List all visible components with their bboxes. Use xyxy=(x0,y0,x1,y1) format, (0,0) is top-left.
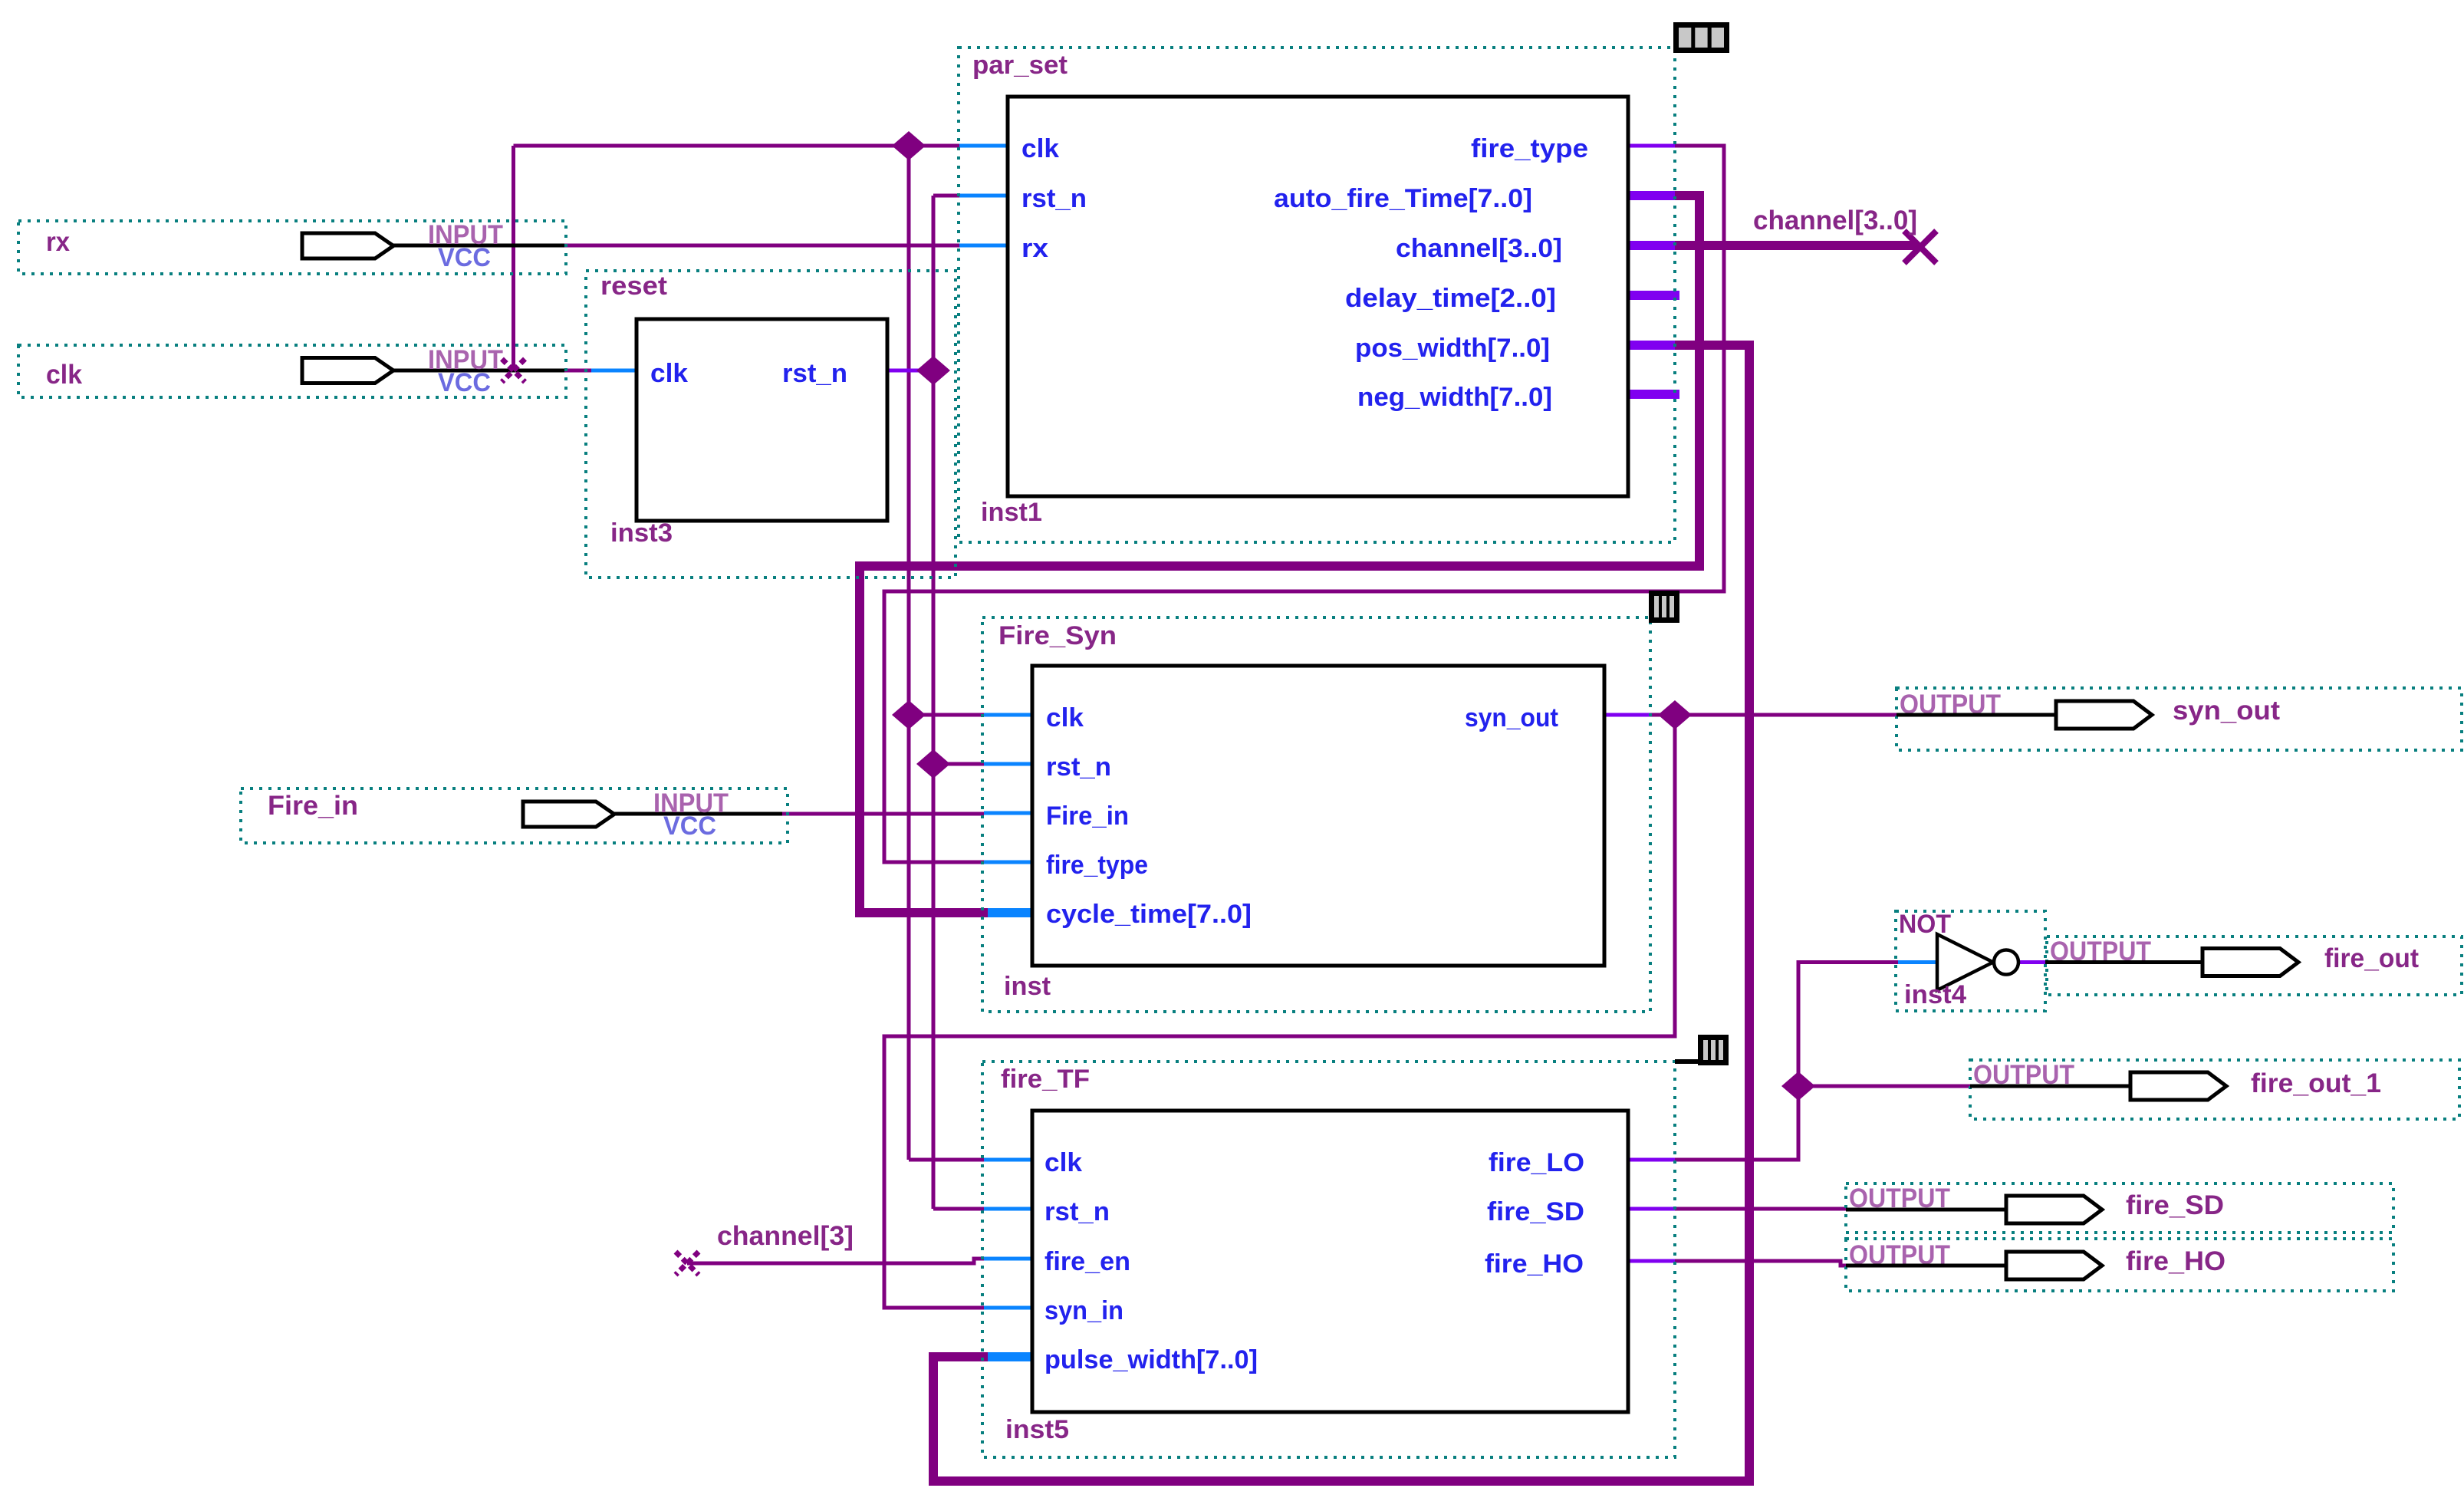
wire rx purple xyxy=(564,244,959,248)
bus pos_width to pulse_width xyxy=(933,345,1749,1481)
wire fire_HO net xyxy=(1675,1261,1848,1266)
Fire_Syn dotted frame xyxy=(982,617,1650,1012)
stub reset rst_n xyxy=(887,369,924,373)
svg-text:rst_n: rst_n xyxy=(1021,184,1087,213)
wire fire_SD net xyxy=(1675,1207,1846,1211)
port fire_SD black wire xyxy=(1846,1208,2008,1212)
wire clk input purple xyxy=(564,369,592,373)
svg-text:rst_n: rst_n xyxy=(1046,752,1111,782)
stub fire_TF fire_SD xyxy=(1628,1207,1675,1211)
wire clk input black xyxy=(393,369,566,373)
wire rst_n branch Fire_Syn xyxy=(933,762,984,766)
port Fire_in pin shape xyxy=(523,802,614,827)
stub Fire_Syn Fire_in xyxy=(984,811,1032,815)
port fire_SD pin shape xyxy=(2006,1196,2102,1223)
bus channel out xyxy=(1675,241,1917,250)
par_set body xyxy=(1008,97,1628,496)
svg-text:clk: clk xyxy=(650,359,688,388)
wire clk trunk xyxy=(907,146,911,1160)
svg-text:fire_SD: fire_SD xyxy=(1487,1197,1584,1226)
svg-text:rst_n: rst_n xyxy=(1044,1197,1110,1226)
stub fire_TF fire_en xyxy=(984,1257,1032,1261)
wire rst_n branch fire_TF xyxy=(933,1207,984,1211)
stub par_set fire_type xyxy=(1628,144,1675,148)
junction rst_n Fire_Syn xyxy=(916,749,950,779)
port fire_out dotted frame xyxy=(2047,937,2462,995)
stub par_set rx xyxy=(959,244,1008,248)
port fire_HO dotted frame xyxy=(1846,1239,2393,1291)
svg-text:channel[3]: channel[3] xyxy=(717,1221,854,1251)
port clk pin shape xyxy=(302,358,393,384)
wire channel3 to fire_en xyxy=(687,1259,984,1263)
svg-text:fire_out_1: fire_out_1 xyxy=(2251,1068,2381,1098)
svg-text:delay_time[2..0]: delay_time[2..0] xyxy=(1345,284,1556,313)
stub Fire_Syn clk xyxy=(984,713,1032,717)
junction clk Fire_Syn xyxy=(892,700,926,729)
svg-text:fire_TF: fire_TF xyxy=(1001,1065,1090,1094)
NOT triangle xyxy=(1937,934,1993,990)
port syn_out dotted frame xyxy=(1897,688,2462,750)
stub fire_TF clk xyxy=(984,1158,1032,1162)
wire rx black xyxy=(393,244,566,248)
page connector stub fire_TF xyxy=(1675,1059,1698,1064)
svg-text:rx: rx xyxy=(46,227,70,257)
wire Fire_in black xyxy=(614,812,784,816)
svg-text:fire_out: fire_out xyxy=(2324,943,2419,973)
wire syn_out branch to syn_in xyxy=(884,715,1675,1308)
page connector icon par_set xyxy=(1673,22,1729,53)
svg-text:cycle_time[7..0]: cycle_time[7..0] xyxy=(1046,900,1252,929)
Fire_Syn body xyxy=(1032,666,1604,966)
X marker clk input xyxy=(502,359,525,382)
junction syn_out xyxy=(1658,700,1692,729)
svg-text:channel[3..0]: channel[3..0] xyxy=(1753,206,1917,235)
stub Fire_Syn cycle_time xyxy=(988,908,1032,917)
reset body xyxy=(637,319,887,521)
port fire_out_1 black wire xyxy=(1970,1085,2131,1088)
fire_TF dotted frame xyxy=(982,1062,1675,1457)
port fire_out black wire xyxy=(2045,960,2205,964)
svg-text:fire_type: fire_type xyxy=(1471,134,1588,163)
wire rst_n branch par_set xyxy=(933,194,959,198)
stub par_set rst_n xyxy=(959,194,1008,198)
svg-text:fire_type: fire_type xyxy=(1046,851,1148,880)
port Fire_in dotted frame xyxy=(241,788,788,843)
stub fire_TF fire_HO xyxy=(1628,1259,1675,1263)
fire_TF body xyxy=(1032,1111,1628,1412)
svg-text:fire_en: fire_en xyxy=(1044,1247,1130,1276)
wire rst_n to trunk xyxy=(923,369,933,373)
svg-text:VCC: VCC xyxy=(663,811,716,841)
NOT output stub xyxy=(2018,960,2045,964)
wire fire_out_1 branch xyxy=(1798,1085,1970,1088)
svg-text:Fire_Syn: Fire_Syn xyxy=(998,621,1117,650)
wire clk top run xyxy=(514,144,960,148)
stub fire_TF fire_LO xyxy=(1628,1158,1675,1162)
stub par_set neg_width xyxy=(1628,390,1679,399)
svg-text:syn_out: syn_out xyxy=(2173,696,2280,726)
svg-text:syn_out: syn_out xyxy=(1465,703,1558,732)
svg-text:clk: clk xyxy=(1044,1148,1082,1177)
port syn_out black wire xyxy=(1897,713,2056,717)
svg-text:pos_width[7..0]: pos_width[7..0] xyxy=(1355,334,1550,363)
wire clk branch Fire_Syn xyxy=(909,713,984,717)
junction fire_LO xyxy=(1781,1072,1815,1101)
svg-text:inst3: inst3 xyxy=(610,518,673,548)
NOT bubble xyxy=(1994,950,2018,975)
svg-text:rst_n: rst_n xyxy=(782,359,847,388)
wire syn_out net xyxy=(1650,713,1897,717)
svg-text:reset: reset xyxy=(600,272,667,301)
par_set dotted frame xyxy=(959,48,1675,542)
wire fire_type net xyxy=(884,146,1724,862)
port rx dotted frame xyxy=(18,221,566,274)
port fire_out_1 dotted frame xyxy=(1970,1060,2459,1119)
svg-text:VCC: VCC xyxy=(438,368,491,397)
svg-text:pulse_width[7..0]: pulse_width[7..0] xyxy=(1044,1345,1258,1374)
svg-text:fire_SD: fire_SD xyxy=(2126,1190,2224,1220)
stub Fire_Syn syn_out xyxy=(1604,713,1650,717)
junction clk par_set xyxy=(892,131,926,160)
port fire_HO pin shape xyxy=(2006,1252,2102,1279)
svg-text:clk: clk xyxy=(1046,703,1084,732)
page connector icon fire_TF xyxy=(1698,1035,1729,1065)
port fire_HO black wire xyxy=(1846,1264,2008,1268)
wire clk branch fire_TF xyxy=(909,1158,984,1162)
stub fire_TF syn_in xyxy=(984,1306,1032,1310)
svg-text:syn_in: syn_in xyxy=(1044,1296,1123,1325)
svg-text:Fire_in: Fire_in xyxy=(1046,802,1129,831)
svg-text:clk: clk xyxy=(46,360,83,390)
svg-text:fire_HO: fire_HO xyxy=(2126,1246,2225,1276)
stub fire_TF pulse_width xyxy=(988,1352,1032,1361)
wire fire_LO net xyxy=(1675,963,1898,1160)
svg-text:VCC: VCC xyxy=(438,243,491,272)
svg-text:channel[3..0]: channel[3..0] xyxy=(1396,234,1562,263)
port rx pin shape xyxy=(302,233,393,258)
svg-text:inst: inst xyxy=(1004,972,1051,1001)
port clk dotted frame xyxy=(18,345,566,397)
page connector icon Fire_Syn xyxy=(1649,591,1679,623)
port fire_out pin shape xyxy=(2202,949,2298,976)
svg-text:fire_LO: fire_LO xyxy=(1489,1148,1584,1177)
stub par_set auto_fire_Time xyxy=(1628,191,1675,200)
NOT input stub xyxy=(1898,960,1937,964)
svg-text:auto_fire_Time[7..0]: auto_fire_Time[7..0] xyxy=(1274,184,1532,213)
svg-text:clk: clk xyxy=(1021,134,1059,163)
stub par_set clk xyxy=(959,144,1008,148)
X marker channel3 xyxy=(676,1252,699,1275)
stub par_set pos_width xyxy=(1628,341,1675,350)
reset dotted frame xyxy=(586,271,956,578)
stub reset clk xyxy=(591,369,637,373)
port fire_out_1 pin shape xyxy=(2130,1072,2226,1100)
svg-text:inst4: inst4 xyxy=(1904,980,1966,1009)
port syn_out pin shape xyxy=(2056,701,2152,729)
NOT dotted frame xyxy=(1896,911,2045,1011)
svg-text:neg_width[7..0]: neg_width[7..0] xyxy=(1357,383,1552,412)
stub par_set channel xyxy=(1628,241,1675,250)
stub Fire_Syn rst_n xyxy=(984,762,1032,766)
stub par_set delay_time xyxy=(1628,291,1679,300)
svg-text:inst1: inst1 xyxy=(981,498,1042,527)
svg-text:NOT: NOT xyxy=(1899,910,1951,939)
port fire_SD dotted frame xyxy=(1846,1183,2393,1233)
svg-text:fire_HO: fire_HO xyxy=(1485,1249,1584,1279)
svg-text:par_set: par_set xyxy=(972,51,1068,80)
X marker channel bus xyxy=(1904,231,1936,263)
wire clk riser xyxy=(512,146,515,370)
wire rst_n trunk xyxy=(932,196,936,1209)
stub Fire_Syn fire_type xyxy=(984,861,1032,864)
junction rst_n reset xyxy=(916,356,950,385)
stub fire_TF rst_n xyxy=(984,1207,1032,1211)
svg-text:rx: rx xyxy=(1021,234,1048,263)
svg-text:Fire_in: Fire_in xyxy=(268,791,358,821)
svg-text:inst5: inst5 xyxy=(1005,1415,1069,1444)
wire Fire_in purple xyxy=(782,812,984,816)
bus auto_fire_Time to cycle_time xyxy=(860,196,1699,913)
